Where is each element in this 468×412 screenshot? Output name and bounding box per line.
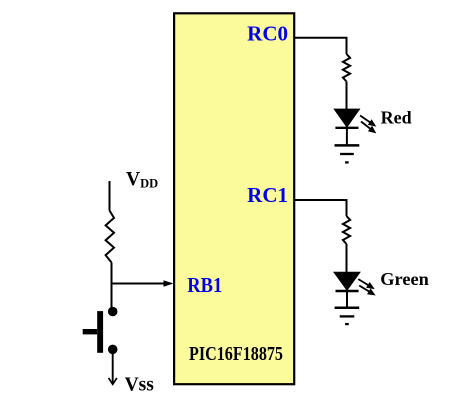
svg-text:VDD: VDD [126, 169, 158, 191]
svg-text:RC0: RC0 [247, 22, 288, 46]
svg-text:RC1: RC1 [247, 183, 288, 207]
svg-text:Red: Red [381, 107, 412, 127]
svg-text:Green: Green [380, 269, 429, 289]
svg-text:RB1: RB1 [187, 273, 222, 297]
svg-text:PIC16F18875: PIC16F18875 [189, 343, 283, 365]
svg-text:Vss: Vss [125, 375, 155, 396]
